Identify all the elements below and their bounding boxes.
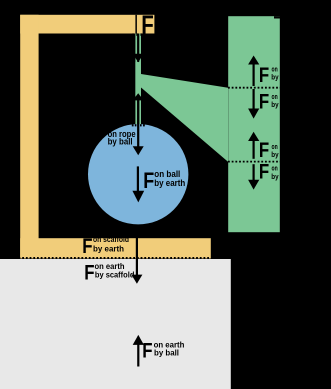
scaffold top bar bbox=[20, 15, 154, 34]
svg-text:F: F bbox=[259, 64, 269, 87]
svg-text:by ball: by ball bbox=[108, 137, 133, 147]
zoom panel arrow 3 (up) bbox=[248, 132, 259, 159]
svg-text:by: by bbox=[271, 174, 278, 181]
svg-text:on: on bbox=[272, 166, 278, 173]
label: F on by (zoom panel 4) bbox=[259, 161, 279, 184]
label: F on rope by ball (upper left of ball) bbox=[92, 125, 136, 148]
label: F on by (zoom panel 2) bbox=[259, 91, 279, 114]
dotted line: zoom panel lower bbox=[228, 161, 281, 163]
arrow: F on ball by earth (down, ball weight) bbox=[132, 166, 144, 202]
rope right strand bbox=[139, 34, 141, 125]
label: F on earth by scaffold (below bottom bar) bbox=[84, 262, 134, 285]
svg-text:F: F bbox=[141, 12, 154, 40]
arrow: F on rope by ball (down, into ball) bbox=[133, 146, 144, 155]
label: F on scaffold by earth (on bottom bar) bbox=[82, 235, 129, 258]
earth (ground slab) bbox=[0, 259, 231, 389]
svg-text:F: F bbox=[143, 168, 154, 193]
svg-text:F: F bbox=[142, 339, 152, 362]
arrow: F on earth by scaffold (down, through bottom bar) bbox=[131, 237, 142, 284]
svg-text:by: by bbox=[271, 102, 278, 109]
scaffold bottom bar bbox=[20, 238, 211, 258]
svg-text:on: on bbox=[272, 94, 278, 101]
svg-text:on: on bbox=[272, 144, 278, 151]
rope left strand bbox=[135, 34, 137, 125]
svg-text:by earth: by earth bbox=[93, 244, 124, 253]
label: F on by (zoom panel 1) bbox=[259, 64, 279, 87]
svg-text:on scaffold: on scaffold bbox=[93, 235, 129, 244]
svg-text:F: F bbox=[259, 139, 269, 162]
attachment ticks under top bar bbox=[132, 33, 142, 35]
zoom panel arrow 4 (down) bbox=[248, 164, 259, 189]
zoom panel arrow 1 (up) bbox=[248, 56, 259, 87]
svg-text:by: by bbox=[271, 152, 278, 159]
zoom panel (green rectangle) bbox=[228, 16, 280, 232]
magnifier wedge from rope to zoom panel bbox=[141, 74, 228, 162]
svg-text:by: by bbox=[271, 75, 278, 82]
arrow: F on rope by scaffold (down, through top bar) bbox=[133, 15, 144, 63]
ball bbox=[88, 124, 188, 224]
attachment ticks on ball top bbox=[132, 124, 145, 126]
zoom panel arrow 2 (down) bbox=[248, 89, 259, 119]
arrow: F on earth by ball (up, in ground) bbox=[133, 335, 144, 367]
arrow: up at zoom point (tension below) bbox=[133, 93, 144, 147]
svg-text:F: F bbox=[259, 161, 269, 184]
zoom panel corner notch bbox=[274, 16, 280, 18]
dotted line: ground contact bbox=[0, 257, 211, 259]
svg-text:by earth: by earth bbox=[154, 178, 185, 188]
dotted line: zoom panel upper bbox=[228, 87, 281, 89]
svg-text:on: on bbox=[272, 66, 278, 73]
svg-text:F: F bbox=[259, 91, 269, 114]
label: F on earth by ball (in ground) bbox=[142, 339, 184, 362]
label: F on by (zoom panel 3) bbox=[259, 139, 279, 162]
svg-text:F: F bbox=[84, 262, 94, 285]
svg-text:F: F bbox=[92, 125, 102, 148]
svg-text:by scaffold: by scaffold bbox=[95, 270, 135, 279]
svg-text:by ball: by ball bbox=[154, 348, 179, 358]
scaffold left post bbox=[20, 15, 38, 259]
rope segment at zoom point (solid green) bbox=[135, 62, 141, 96]
label: F on ball by earth (ball centre) bbox=[143, 168, 185, 193]
svg-text:F: F bbox=[82, 235, 92, 258]
